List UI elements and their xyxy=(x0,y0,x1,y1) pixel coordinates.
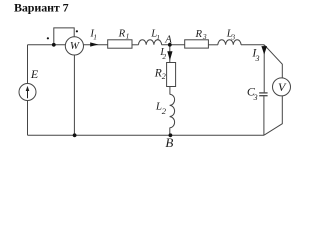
svg-text:A: A xyxy=(164,33,172,45)
svg-text:B: B xyxy=(165,135,173,147)
svg-text:W: W xyxy=(70,40,80,52)
svg-text:2: 2 xyxy=(162,52,166,61)
svg-text:R: R xyxy=(118,28,126,40)
svg-text:1: 1 xyxy=(93,32,97,41)
svg-text:Вариант 7: Вариант 7 xyxy=(14,1,69,15)
svg-text:3: 3 xyxy=(230,33,235,42)
svg-text:3: 3 xyxy=(253,93,258,102)
svg-text:E: E xyxy=(30,67,39,81)
svg-text:R: R xyxy=(154,68,162,80)
svg-text:3: 3 xyxy=(202,32,207,41)
svg-text:1: 1 xyxy=(126,32,130,41)
svg-text:1: 1 xyxy=(156,33,160,42)
svg-text:R: R xyxy=(195,28,203,40)
svg-text:3: 3 xyxy=(255,54,260,63)
svg-text:2: 2 xyxy=(162,106,167,116)
svg-text:2: 2 xyxy=(162,72,166,81)
